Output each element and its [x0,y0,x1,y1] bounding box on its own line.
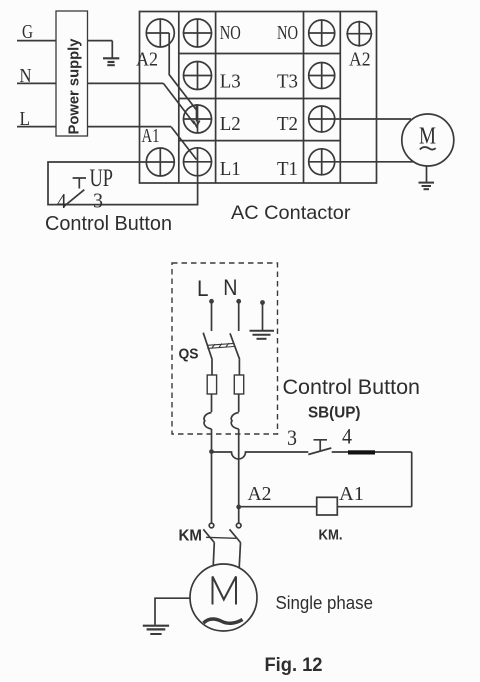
svg-text:Control Button: Control Button [45,212,172,235]
contactor column line v3 [215,12,217,184]
node dot L [209,299,214,304]
svg-text:L3: L3 [220,71,241,93]
svg-text:N: N [223,275,237,300]
svg-text:M: M [419,124,436,150]
svg-text:G: G [22,21,33,43]
wire curl N [231,413,238,430]
wire L to contactor [17,126,171,128]
KM contact linkage [206,537,236,538]
svg-text:Fig. 12: Fig. 12 [265,655,323,676]
svg-text:3: 3 [287,425,297,450]
switch QS pole L upper wire [211,301,213,331]
terminal A1 (coil, bottom-left) [146,148,176,176]
terminal L1 [183,148,212,176]
KM contact terminal L [209,523,214,528]
wire N pole to fuse [238,360,240,375]
coil KM box [317,497,338,515]
terminal A2 (right) [346,21,372,47]
svg-text:A2: A2 [136,49,158,71]
wire N node to KM contact [238,507,240,523]
svg-text:A1: A1 [339,483,364,505]
contactor row divider d1 [179,53,340,55]
contactor column line v2 [178,12,180,184]
wire N diagonal into L2 [163,83,194,124]
KM contact blade L [203,529,214,542]
svg-text:Power supply: Power supply [66,38,83,135]
switch QS pole N blade [230,333,240,359]
ground (top, protective earth) [103,41,119,66]
svg-text:T3: T3 [277,71,298,93]
dashed enclosure box [172,263,278,434]
terminal A2 (coil, top-left) [146,19,174,47]
motor M2 (bottom) [190,564,257,631]
contactor column line v4 [303,12,305,184]
pushbutton UP contact blade [64,190,84,207]
arrow into L2 [193,104,199,127]
node dot A2 [236,505,241,510]
svg-text:A1: A1 [142,125,160,147]
wire curl L [204,413,211,430]
terminal T2 [308,106,335,133]
svg-text:Control Button: Control Button [283,376,421,399]
svg-text:NO: NO [220,22,241,44]
pushbutton UP actuator [73,178,86,189]
terminal T1 [308,148,335,175]
power supply box [56,11,88,136]
wire KM to motor (right) [239,543,240,569]
fuse FU1 [207,375,216,394]
wire SB to right corner [332,451,412,453]
wire KM to motor (left) [213,543,214,567]
KM contact blade N [230,529,241,542]
svg-text:A2: A2 [349,49,371,71]
jumper wire A2 to L2 [169,33,196,110]
svg-text:T1: T1 [277,158,298,180]
wire L junction to KM contact [211,452,213,523]
terminal T3 [308,62,335,89]
switch QS pole L blade [203,333,212,360]
contactor column line v5 [339,12,341,184]
terminal NO (line side) [183,19,212,47]
svg-text:T2: T2 [277,113,298,135]
terminal L3 [183,62,212,90]
wire below fuse FU2 [238,394,240,412]
wire T2 to motor [335,118,411,120]
node dot earth [260,300,265,305]
svg-text:L: L [197,276,209,301]
contactor row divider d2 [179,98,340,100]
wire L diagonal into L1 [171,127,196,160]
svg-text:KM.: KM. [319,527,343,544]
pushbutton SB blade [308,448,331,455]
switch QS linkage [207,343,234,348]
svg-text:SB(UP): SB(UP) [308,405,361,422]
wire L pole to fuse [211,360,213,375]
svg-text:L1: L1 [220,158,241,180]
AC contactor outer box [140,12,377,184]
svg-text:L2: L2 [220,113,241,135]
wire G from supply [17,40,112,42]
wire motor to ground [155,598,190,625]
wire T1 to motor [335,161,414,163]
svg-text:NO: NO [277,22,298,44]
wire button branch with hop over N [212,452,309,459]
wire L down to junction [211,429,213,452]
wire coil to A2 node [239,506,317,508]
svg-text:AC Contactor: AC Contactor [231,202,351,224]
control button loop wire (A1 to L1) [48,162,198,205]
svg-text:A2: A2 [248,483,272,505]
fuse FU2 [234,375,243,394]
node dot N [236,299,241,304]
svg-text:Single phase: Single phase [276,593,374,613]
ground (motor top) [419,166,435,189]
wire right side down [411,452,413,507]
svg-text:KM: KM [179,528,203,545]
svg-text:QS: QS [179,346,199,363]
wire below fuse FU1 [211,394,213,412]
motor M1 (top) [402,114,454,166]
ground (inside box) [250,303,275,339]
wire corner to coil A1 [337,506,411,508]
pushbutton SB actuator [314,440,328,451]
KM contact terminal N [236,523,241,528]
contactor row divider d3 [179,140,340,142]
wire N down to coil node [238,429,240,507]
svg-text:4: 4 [57,189,67,213]
svg-text:4: 4 [342,424,352,449]
switch QS pole N upper wire [238,301,240,331]
terminal L2 [183,105,212,133]
junction dot (L / button branch) [209,449,214,454]
terminal NO (load side) [308,20,335,47]
wire N to contactor [17,82,163,84]
ground (motor bottom) [143,626,169,634]
NO contact mark (thick bar) [348,450,375,454]
svg-text:3: 3 [93,189,103,213]
